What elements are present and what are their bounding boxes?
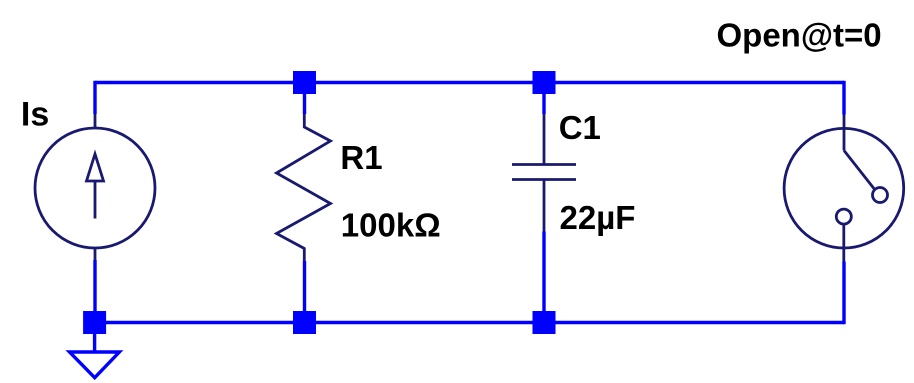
wire right vertical upper xyxy=(842,81,845,115)
svg-text:C1: C1 xyxy=(559,109,601,146)
ground xyxy=(70,352,120,378)
node junction bottom left xyxy=(83,311,106,334)
svg-text:Open@t=0: Open@t=0 xyxy=(717,17,882,54)
svg-text:Is: Is xyxy=(21,95,49,133)
svg-text:22µF: 22µF xyxy=(560,199,636,236)
wire right vertical lower xyxy=(842,262,845,325)
node junction top resistor xyxy=(293,71,316,94)
svg-text:100kΩ: 100kΩ xyxy=(341,207,441,244)
resistor R1 xyxy=(277,114,331,261)
node junction bottom capacitor xyxy=(533,311,556,334)
capacitor C1 xyxy=(512,114,576,232)
wire resistor top stub xyxy=(303,83,306,115)
node junction bottom resistor xyxy=(293,311,316,334)
wire bottom horizontal xyxy=(95,321,844,324)
node junction top capacitor xyxy=(533,71,556,94)
wire capacitor bottom stub xyxy=(542,232,545,323)
switch U1 Open@t=0 xyxy=(784,115,904,262)
wire left vertical upper xyxy=(93,81,96,114)
wire capacitor top stub xyxy=(542,83,545,115)
current source Is xyxy=(35,114,155,260)
wire resistor bottom stub xyxy=(303,261,306,323)
wire left vertical lower xyxy=(93,260,96,323)
svg-text:R1: R1 xyxy=(340,139,382,176)
wire ground stub xyxy=(93,323,96,353)
wire top horizontal xyxy=(95,81,844,84)
